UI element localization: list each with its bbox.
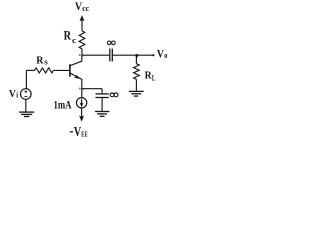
capacitor coupling (infinite) [110,49,113,62]
voltage source Vi [21,89,32,100]
label infinity (bypass cap) [110,93,118,97]
wire Rs to transistor base [53,69,69,71]
svg-text:c: c [72,35,77,45]
resistor Rs [35,68,54,73]
wire coupling cap to output node [113,54,136,56]
wire bypass cap bottom lead [101,98,103,111]
ground (below RL) [129,91,144,96]
node D junction dot [135,54,138,57]
resistor RL [134,55,140,91]
wire output node to Vo terminal [136,54,153,56]
label Rs [36,55,48,66]
capacitor bypass (infinite) [96,94,109,98]
transistor Q1 base bar [69,64,71,76]
node C junction dot [79,54,81,56]
svg-text:V: V [9,89,17,100]
wire Vi source up to corner [25,70,27,88]
label Vo [157,48,168,60]
svg-text:s: s [44,58,48,67]
label Rc [64,29,77,45]
label Vcc [75,0,90,13]
wire Rc bottom to collector node [81,49,83,56]
svg-text:V: V [74,125,82,140]
wire current source to -VEE arrow [80,108,84,121]
wire Vi source to ground [25,99,27,111]
label Vi [9,89,19,100]
wire bypass cap top lead [101,89,103,94]
svg-text:cc: cc [82,4,89,13]
current source I1 (1mA) [76,98,86,108]
svg-text:1mA: 1mA [54,99,73,111]
ground (below bypass cap) [95,112,110,117]
wire emitter node down to current source [81,89,83,98]
label -VEE [70,125,88,140]
emitter node junction dot [79,87,81,89]
svg-text:i: i [16,91,18,100]
transistor Q1 collector lead [70,55,81,65]
label RL [145,70,156,83]
svg-text:L: L [152,74,155,83]
label infinity (coupling cap) [107,41,115,45]
wire Vi corner to Rs [26,69,34,71]
svg-text:R: R [36,55,44,66]
transistor Q1 emitter lead with arrow [70,73,81,88]
wire collector node to coupling capacitor [82,54,109,56]
Vcc supply arrow [80,16,84,31]
svg-text:R: R [64,29,72,43]
Vo terminal dot [152,54,154,56]
svg-text:o: o [164,51,167,60]
wire emitter node to bypass capacitor [82,88,102,90]
resistor Rc [79,31,85,49]
svg-text:EE: EE [81,131,88,139]
ground (below Vi) [19,112,34,116]
